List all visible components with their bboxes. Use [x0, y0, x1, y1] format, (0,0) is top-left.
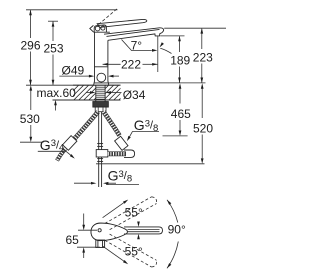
- pipe elbow block: [96, 150, 108, 157]
- plan view: spout tube: [124, 227, 163, 234]
- svg-text:520: 520: [193, 122, 213, 136]
- aerator reference line: [160, 35, 184, 37]
- dim 55 upper: [103, 198, 143, 226]
- label G3/4: [38, 137, 76, 160]
- handle knuckle: [90, 25, 107, 32]
- left hose end: [57, 149, 66, 161]
- right hose G3/8 fitting: [115, 136, 128, 150]
- dim 222: [103, 57, 158, 71]
- svg-text:222: 222: [121, 57, 141, 71]
- mounting nut: [93, 102, 109, 112]
- side view: datum/counter top line: [26, 83, 206, 85]
- dim 253: [44, 21, 64, 85]
- svg-text:296: 296: [21, 38, 41, 52]
- svg-text:90°: 90°: [168, 223, 186, 237]
- dim 55 lower: [103, 234, 143, 265]
- label Ø34: [86, 88, 146, 102]
- right supply hose (braided): [104, 112, 120, 136]
- label Ø49: [59, 63, 119, 77]
- hose end loop tube: [124, 150, 135, 157]
- label max.60: [37, 86, 84, 111]
- dim 7 degrees: [122, 38, 172, 53]
- spout top reference line: [164, 27, 226, 29]
- svg-text:530: 530: [20, 112, 40, 126]
- counter slab with hatching: [53, 85, 135, 101]
- svg-text:65: 65: [66, 233, 80, 247]
- left supply hose (braided): [73, 112, 99, 141]
- label G3/8 upper: [126, 117, 159, 142]
- threaded shank: [96, 85, 105, 101]
- handle raised position dashed line: [99, 9, 118, 25]
- dim 520: [96, 83, 213, 164]
- label G3/8 lower: [74, 168, 139, 185]
- svg-text:55°: 55°: [125, 206, 143, 220]
- svg-text:Ø49: Ø49: [62, 63, 85, 77]
- lever handle blade: [97, 19, 147, 27]
- dim 65: [66, 214, 101, 259]
- horizontal hose to loop (braided): [108, 151, 126, 156]
- svg-text:189: 189: [170, 53, 190, 67]
- spout tip vertical extension line: [157, 36, 159, 72]
- svg-text:253: 253: [44, 42, 64, 56]
- svg-text:223: 223: [193, 50, 213, 64]
- dim 223: [193, 28, 213, 83]
- base plate flare: [94, 81, 110, 85]
- dim 90 arc: [166, 199, 186, 269]
- faucet body: [93, 32, 110, 81]
- dim 530: [20, 85, 44, 142]
- svg-text:max.60: max.60: [37, 86, 77, 100]
- middle rigid pipe: [97, 112, 103, 187]
- plan view: side tab: [96, 240, 105, 248]
- dim 296: [21, 10, 118, 85]
- plan view: body circle: [91, 223, 109, 241]
- left hose G3/4 fitting: [63, 136, 77, 151]
- dim 189: [170, 36, 190, 83]
- spout: [104, 28, 164, 40]
- svg-text:55°: 55°: [125, 245, 143, 259]
- svg-text:Ø34: Ø34: [123, 88, 146, 102]
- svg-text:465: 465: [171, 107, 191, 121]
- plan view: lower dashed spout position: [105, 234, 157, 267]
- body circle detail: [97, 73, 106, 82]
- dim 465: [163, 83, 192, 136]
- plan view: upper dashed spout position: [105, 197, 157, 230]
- plan view: lever teardrop: [91, 223, 127, 240]
